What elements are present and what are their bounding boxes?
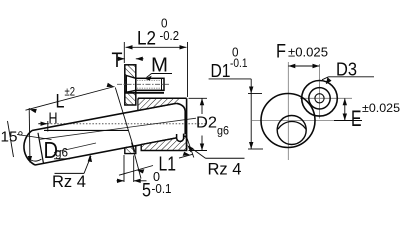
L left extension / 15deg vertical leg with arrow: [28, 108, 31, 158]
screw M: countersunk head (white): [126, 76, 136, 93]
bushing top hatched band: [138, 98, 181, 110]
centerline vertical of big circle: [287, 62, 289, 160]
screw bottom thick edge: [125, 92, 164, 94]
dimension F: [288, 65, 319, 67]
svg-text:g6: g6: [217, 126, 229, 138]
15 deg arc: [30, 159, 42, 161]
U-notch relief at pin bottom right: [177, 134, 184, 142]
wire: H horizontal reference line: [44, 129, 129, 131]
dimension L2 with extension lines: [124, 42, 187, 97]
svg-text:-0.1: -0.1: [152, 181, 172, 196]
screw M centerline: [117, 83, 169, 85]
bore circle inside big circle: [277, 116, 306, 145]
dimension L1 (slanted): [119, 166, 153, 176]
svg-text:D2: D2: [196, 115, 217, 132]
pin right end face with rounded corner: [176, 103, 185, 134]
clamp plate bottom tip: [125, 146, 136, 154]
svg-text:F: F: [276, 42, 286, 63]
wire: horizontal dotted centerline of bushing: [38, 123, 207, 125]
svg-text:±0.025: ±0.025: [362, 101, 400, 115]
svg-text:E: E: [351, 106, 362, 131]
big circle D1: [261, 94, 315, 148]
wire: pin axis centerline: [40, 118, 196, 139]
svg-text:-0.1: -0.1: [230, 56, 248, 70]
pin body outline: [24, 103, 187, 165]
bushing bottom hatched band: [141, 136, 186, 151]
clamp plate (hatched): [125, 65, 136, 105]
svg-text:5: 5: [142, 181, 151, 202]
centerline horizontal of big circle: [252, 120, 335, 122]
svg-text:H: H: [49, 111, 58, 128]
L right extension line: [115, 88, 135, 153]
centerline horizontal of small bore: [300, 97, 352, 99]
svg-text:L: L: [56, 92, 65, 113]
svg-text:L1: L1: [159, 154, 177, 176]
svg-text:L2: L2: [137, 29, 156, 50]
dimension L (slanted) with arrows: [26, 87, 115, 111]
bore far-end arc: [278, 122, 306, 130]
wire: short thin line above g6: [54, 143, 96, 153]
svg-text:-0.2: -0.2: [160, 28, 180, 43]
wire: second angle leg through 15deg label: [8, 121, 14, 157]
screw M: shank: [136, 78, 164, 90]
svg-text:±2: ±2: [65, 87, 76, 99]
svg-text:D1: D1: [211, 61, 231, 81]
dimension D2 g6: [189, 97, 208, 99]
dimension T (arrows outside): [117, 58, 125, 60]
bushing right face: [186, 98, 188, 150]
centerline vertical of small bore: [319, 64, 321, 119]
svg-text:g6: g6: [55, 148, 68, 160]
dimension D1: [209, 78, 252, 80]
dimension E: [344, 98, 346, 120]
small circle group D3: [302, 81, 338, 117]
svg-text:T: T: [112, 49, 123, 72]
svg-text:Rz 4: Rz 4: [208, 160, 242, 179]
wire: leader from 15deg label: [17, 135, 52, 140]
svg-text:±0.025: ±0.025: [288, 46, 328, 60]
dimension 5 0/-0.1: [123, 155, 125, 182]
svg-text:15°: 15°: [1, 129, 24, 146]
svg-text:Rz 4: Rz 4: [52, 172, 86, 191]
